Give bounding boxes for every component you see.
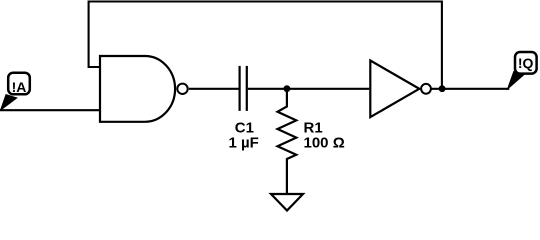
wire: NAND output to C1 — [189, 88, 239, 90]
node !A flag — [1, 73, 30, 110]
wire: input !A to NAND bottom input — [0, 109, 100, 111]
label C1 value — [229, 120, 259, 152]
svg-text:!Q: !Q — [518, 55, 534, 71]
wire: feedback from inverter output up over the top to NAND top input — [89, 2, 442, 89]
nand output bubble — [177, 84, 187, 94]
nand gate U1 — [100, 56, 175, 122]
svg-text:1 µF: 1 µF — [229, 135, 259, 152]
ground — [271, 194, 303, 211]
label R1 value — [304, 120, 345, 152]
inverter output bubble — [421, 84, 431, 94]
resistor R1 — [278, 89, 297, 194]
inverter U2 — [370, 61, 419, 118]
svg-text:!A: !A — [12, 79, 27, 95]
wire: inverter output to !Q — [431, 88, 509, 90]
node junction dot at feedback — [439, 85, 446, 92]
node !Q flag — [508, 52, 537, 89]
svg-text:100 Ω: 100 Ω — [304, 135, 345, 152]
wire: C1 to inverter input — [248, 88, 369, 90]
capacitor C1 — [240, 66, 247, 111]
node junction dot at C1/R1 — [284, 85, 291, 92]
